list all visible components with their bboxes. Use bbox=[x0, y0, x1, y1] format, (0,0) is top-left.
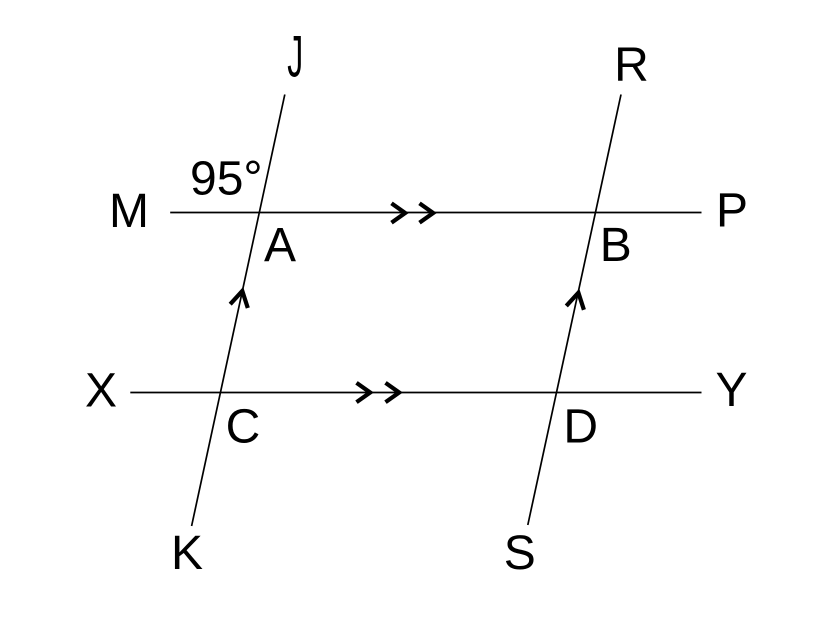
parallel mark on JK: single chevron bbox=[230, 291, 248, 308]
parallel mark on XY: double chevron bbox=[357, 383, 400, 402]
svg-text:K: K bbox=[171, 527, 203, 580]
svg-text:Y: Y bbox=[715, 364, 747, 417]
svg-text:R: R bbox=[614, 39, 649, 92]
svg-text:95°: 95° bbox=[190, 153, 263, 206]
parallel mark on MP: double chevron bbox=[392, 203, 434, 222]
svg-text:C: C bbox=[226, 401, 261, 454]
svg-text:D: D bbox=[563, 401, 598, 454]
transversal RS bbox=[528, 95, 621, 526]
parallel mark on RS: single chevron bbox=[566, 293, 584, 310]
svg-text:M: M bbox=[109, 185, 149, 238]
svg-text:A: A bbox=[264, 219, 296, 272]
svg-text:S: S bbox=[504, 527, 536, 580]
transversal JK bbox=[192, 95, 285, 527]
svg-text:J: J bbox=[287, 24, 303, 88]
svg-text:B: B bbox=[600, 219, 632, 272]
line XY bbox=[130, 392, 701, 394]
line MP bbox=[170, 212, 701, 214]
svg-text:X: X bbox=[85, 364, 117, 417]
svg-text:P: P bbox=[716, 185, 748, 238]
